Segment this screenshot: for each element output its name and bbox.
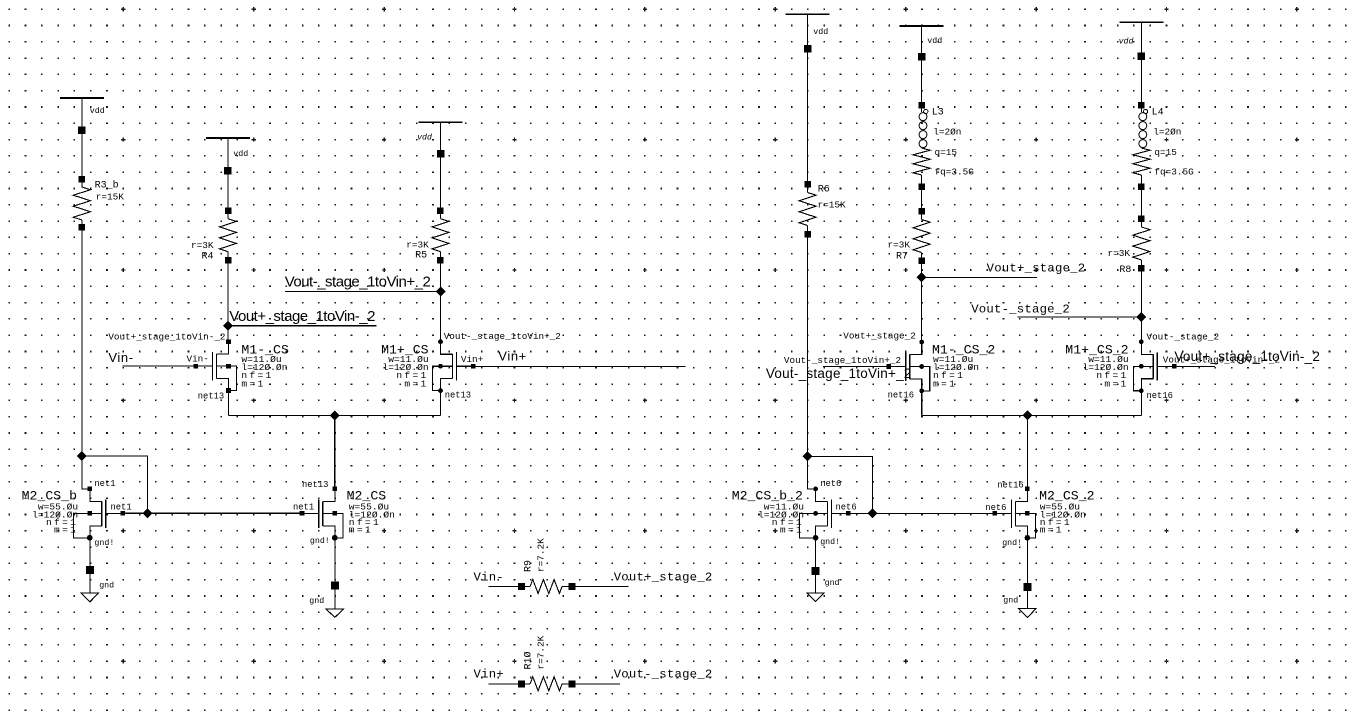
inductor L4 bottom pin <box>1138 183 1145 190</box>
svg-text:Vout-_stage_2: Vout-_stage_2 <box>1147 332 1220 343</box>
wire stub Vout+_stage_2 <box>922 276 1037 278</box>
wire vdd to R6 <box>807 14 809 192</box>
wire: bulk tie <box>217 366 237 390</box>
pin square on vdd stick <box>78 127 86 135</box>
svg-text:Vout-_stage_2: Vout-_stage_2 <box>971 302 1070 316</box>
wire L3 to R7 <box>921 175 923 220</box>
node Vout-_stage_2 <box>1136 312 1146 322</box>
drain pin <box>813 487 818 492</box>
bulk pin <box>1139 364 1144 369</box>
wire stub Vout-_stage_1toVin+_2 <box>285 291 441 293</box>
svg-text:gnd!: gnd! <box>310 536 330 546</box>
svg-text:Vin+: Vin+ <box>474 668 504 682</box>
svg-text:gnd: gnd <box>825 578 840 588</box>
svg-text:net6: net6 <box>820 479 841 489</box>
resistor R8 <box>1138 216 1145 223</box>
gate bar <box>1156 352 1158 380</box>
wire jog into M2_CS_b_2 drain <box>808 456 816 489</box>
gate pin <box>992 511 997 516</box>
common source rail stage2 <box>922 414 1142 416</box>
svg-text:m=1: m=1 <box>54 525 78 536</box>
wire: drain lead <box>816 489 828 502</box>
svg-text:Vout+_stage_2: Vout+_stage_2 <box>987 262 1086 276</box>
gate pin <box>471 364 476 369</box>
svg-text:Vin+: Vin+ <box>461 354 484 365</box>
svg-text:fq=3.5G: fq=3.5G <box>935 167 975 178</box>
wire: source lead <box>816 526 828 538</box>
source pin <box>1025 536 1030 541</box>
wire: source lead <box>90 526 102 538</box>
drain pin <box>333 487 338 492</box>
svg-text:Vout+_stage_2: Vout+_stage_2 <box>614 570 713 584</box>
svg-text:net6: net6 <box>836 503 857 513</box>
svg-text:Vout-_stage_1toVin+_2: Vout-_stage_1toVin+_2 <box>444 331 561 342</box>
wire R4 to M1-_CS drain <box>227 252 229 342</box>
wire R7 to M1-_CS_2 drain <box>921 253 923 342</box>
wire jog into M2_CS_b drain <box>82 456 90 489</box>
wire gate M1-_CS_2 <box>823 366 906 368</box>
wire rail to M2_CS_2 drain <box>1026 415 1028 489</box>
wire stub Vout+_stage_1toVin-_2 <box>228 325 377 327</box>
channel bar <box>1014 501 1016 525</box>
gate pin <box>846 511 851 516</box>
svg-text:gnd: gnd <box>99 580 114 590</box>
wire vdd to L3 <box>921 26 923 112</box>
svg-text:m=1: m=1 <box>404 378 428 389</box>
svg-text:net16: net16 <box>1147 391 1173 401</box>
svg-text:r=3K: r=3K <box>887 240 910 251</box>
wire M1+_CS_2 source to rail <box>1140 391 1142 416</box>
gate lead <box>1157 365 1174 367</box>
wire: drain lead <box>910 342 922 355</box>
channel bar <box>322 501 324 525</box>
gate lead <box>196 365 213 367</box>
source junction dot M2_CS_2 <box>1025 535 1031 541</box>
wire R10 to Vout-_stage_2 <box>562 683 620 685</box>
wire: source lead <box>1015 526 1027 538</box>
svg-text:vdd: vdd <box>1119 36 1134 46</box>
svg-text:m=1: m=1 <box>241 378 265 389</box>
svg-text:r=3K: r=3K <box>406 240 429 251</box>
vdd rail symbol (L3 branch) <box>900 25 944 27</box>
svg-text:m=1: m=1 <box>1040 525 1064 536</box>
svg-text:vdd: vdd <box>927 36 942 46</box>
bulk pin <box>1025 511 1030 516</box>
svg-text:Vout-_stage_1toVin+_2: Vout-_stage_1toVin+_2 <box>285 273 431 290</box>
drain pin <box>1139 339 1144 344</box>
wire: drain lead <box>217 342 229 355</box>
wire: bulk tie <box>799 513 827 537</box>
svg-text:net13: net13 <box>198 392 224 402</box>
svg-text:vdd: vdd <box>417 133 432 143</box>
svg-text:Vin+: Vin+ <box>498 349 527 364</box>
bulk pin <box>919 364 924 369</box>
gate bar <box>318 499 320 527</box>
svg-text:m=1: m=1 <box>349 525 373 536</box>
source pin <box>438 388 443 393</box>
node junction R6 bottom <box>803 451 813 461</box>
wire: drain lead <box>1015 489 1027 502</box>
vdd rail symbol (L4 branch) <box>1119 21 1163 23</box>
wire: drain lead <box>1141 342 1153 355</box>
wire: bulk tie <box>910 367 930 391</box>
wire M1+_CS gate to Vin+ <box>457 365 686 367</box>
svg-text:R3_b: R3_b <box>95 179 119 191</box>
gate lead <box>302 512 319 514</box>
wire: source lead <box>217 379 229 391</box>
svg-text:R8: R8 <box>1119 265 1131 276</box>
ground symbol (M2_CS) <box>326 609 344 618</box>
wire vdd to R3_b <box>81 98 83 187</box>
node Vout-_stage_1toVin+_2 <box>436 287 446 297</box>
svg-text:R6: R6 <box>818 185 830 196</box>
svg-text:net6: net6 <box>985 503 1006 513</box>
gate pin <box>120 511 125 516</box>
wire R6 to M2_CS_b_2 <box>807 226 809 457</box>
vdd rail symbol (R3_b branch) <box>60 97 104 99</box>
wire R8 to M1+_CS_2 drain <box>1140 260 1142 342</box>
resistor R10 (horizontal) <box>518 680 525 687</box>
wire: drain lead <box>441 342 453 355</box>
svg-text:l=2Øn: l=2Øn <box>933 127 961 138</box>
node net1 junction <box>143 508 153 518</box>
svg-text:r=15K: r=15K <box>818 200 847 211</box>
svg-text:r=15K: r=15K <box>96 192 125 203</box>
node net6 junction <box>867 508 877 518</box>
wire junction to gate net (stage2) <box>808 456 873 513</box>
svg-text:q=15: q=15 <box>935 147 958 158</box>
wire stub Vout-_stage_2 <box>1017 316 1141 318</box>
bulk pin <box>438 364 443 369</box>
wire vdd to L4 <box>1140 22 1142 112</box>
gate pin <box>300 511 305 516</box>
channel bar <box>909 355 911 379</box>
resistor R7 <box>918 208 925 215</box>
wire rail to M2_CS drain <box>334 415 336 489</box>
pin square on vdd stick R5 <box>437 150 445 158</box>
svg-text:m=1: m=1 <box>1104 378 1128 389</box>
svg-text:vdd: vdd <box>233 149 248 159</box>
source pin <box>919 389 924 394</box>
ground symbol (M2_CS_b) <box>81 593 99 602</box>
drain pin <box>438 339 443 344</box>
svg-text:R4: R4 <box>201 252 213 263</box>
svg-text:R9: R9 <box>523 560 534 572</box>
channel bar <box>101 501 103 525</box>
gate lead <box>457 365 474 367</box>
svg-text:r=3K: r=3K <box>191 240 214 251</box>
svg-text:Vin-: Vin- <box>187 353 209 364</box>
svg-text:Vout-_stage_1toVin+_2: Vout-_stage_1toVin+_2 <box>784 355 901 366</box>
svg-text:Vout+_stage_1toVin-_2: Vout+_stage_1toVin-_2 <box>1174 349 1320 364</box>
svg-text:net13: net13 <box>302 480 328 490</box>
svg-text:fq=3.5G: fq=3.5G <box>1154 167 1194 178</box>
gate lead <box>832 512 849 514</box>
resistor R5 <box>437 207 444 214</box>
pin square on vdd stick R4 <box>224 167 232 175</box>
resistor R4 <box>225 207 232 214</box>
wire net1 gate bus M2_CS_b to M2_CS <box>123 512 302 514</box>
svg-text:Vout+_stage_1toVin-_2: Vout+_stage_1toVin-_2 <box>108 332 225 343</box>
inductor L3 <box>918 102 925 109</box>
channel bar <box>452 354 454 378</box>
wire: source lead <box>441 379 453 391</box>
source junction dot M2_CS <box>332 535 338 541</box>
svg-text:net1: net1 <box>293 503 314 513</box>
svg-text:Vout+_stage_1toVin-_2: Vout+_stage_1toVin-_2 <box>229 308 375 325</box>
vdd rail symbol (R6 branch) <box>786 13 830 15</box>
wire R5 to M1+_CS drain <box>440 252 442 342</box>
source pin <box>88 536 93 541</box>
svg-text:gnd!: gnd! <box>1002 538 1022 548</box>
channel bar <box>827 501 829 525</box>
wire: bulk tie <box>1015 513 1035 537</box>
node junction at R3_b bottom <box>77 451 87 461</box>
ground symbol (M2_CS_b_2) <box>807 593 825 602</box>
wire R9 to Vout+_stage_2 <box>562 586 628 588</box>
svg-text:r=3K: r=3K <box>1107 248 1130 259</box>
wire: bulk tie <box>433 366 453 390</box>
svg-text:m=1: m=1 <box>780 525 804 536</box>
wire: bulk tie <box>323 513 343 537</box>
svg-text:gnd!: gnd! <box>820 537 840 547</box>
svg-text:net16: net16 <box>888 391 914 401</box>
svg-text:vdd: vdd <box>813 27 828 37</box>
svg-text:R1Ø: R1Ø <box>522 651 534 669</box>
source pin <box>1139 388 1144 393</box>
bulk pin <box>226 364 231 369</box>
vdd rail symbol (R4 branch) <box>206 137 250 139</box>
node net16 tail junction <box>1023 410 1033 420</box>
wire vdd to R4 <box>227 138 229 219</box>
resistor R9 (horizontal) <box>518 583 525 590</box>
gate pin <box>193 364 198 369</box>
gnd pin square <box>86 566 94 574</box>
channel bar <box>216 354 218 378</box>
wire L4 to R8 <box>1140 175 1142 227</box>
resistor R6 <box>804 181 811 188</box>
node net13 tail junction <box>330 410 340 420</box>
wire R3_b to M2_CS_b drain <box>81 220 83 456</box>
channel bar <box>1152 354 1154 378</box>
svg-text:net1: net1 <box>111 502 132 512</box>
wire junction to gate-net of M2_CS_b <box>82 456 148 513</box>
pin square on vdd stick L4 <box>1138 53 1146 61</box>
svg-text:R7: R7 <box>896 252 908 263</box>
bulk pin <box>813 511 818 516</box>
wire: drain lead <box>90 489 102 502</box>
svg-text:r=7.2K: r=7.2K <box>536 635 547 669</box>
svg-text:m=1: m=1 <box>933 378 957 389</box>
node Vout+_stage_2 <box>917 272 927 282</box>
wire M1-_CS_2 source to rail <box>921 391 923 416</box>
drain pin <box>1025 487 1030 492</box>
gate pin <box>1172 364 1177 369</box>
source pin <box>226 388 231 393</box>
bulk pin <box>88 511 93 516</box>
wire vdd to R5 <box>440 122 442 219</box>
node Vout+_stage_1toVin-_2 <box>223 321 233 331</box>
svg-text:R5: R5 <box>415 251 427 262</box>
gate bar <box>456 352 458 380</box>
wire: source lead <box>910 379 922 391</box>
svg-text:net1: net1 <box>94 479 115 489</box>
gate bar <box>212 352 214 380</box>
gate bar <box>105 499 107 527</box>
gate lead <box>995 512 1012 514</box>
gate bar <box>905 353 907 381</box>
wire M2_CS_b_2 source to gnd <box>815 538 817 593</box>
gnd pin square M2_CS <box>331 581 339 589</box>
inductor L4 <box>1138 102 1145 109</box>
svg-text:L3: L3 <box>932 108 944 119</box>
svg-text:q=15: q=15 <box>1154 147 1177 158</box>
svg-text:Vin-: Vin- <box>474 570 504 584</box>
svg-text:L4: L4 <box>1152 108 1164 119</box>
wire M1- source to common rail <box>228 391 230 416</box>
wire net6 gate bus <box>849 512 997 514</box>
wire M2_CS_b source to gnd <box>89 538 91 593</box>
svg-text:gnd: gnd <box>1003 596 1018 606</box>
gnd pin square M2_CS_b_2 <box>812 567 820 575</box>
pin square on vdd stick R6 <box>804 45 812 53</box>
wire Vin+ to R10 <box>488 683 530 685</box>
wire M2_CS source to gnd <box>334 538 336 609</box>
inductor L3 bottom pin <box>918 183 925 190</box>
ground symbol (M2_CS_2) <box>1019 608 1037 617</box>
vdd rail symbol (R5 branch) <box>419 121 463 123</box>
svg-text:net13: net13 <box>445 390 471 400</box>
source junction dot M2_CS_b_2 <box>813 535 819 541</box>
svg-text:vdd: vdd <box>90 106 105 116</box>
wire: bulk tie <box>74 513 102 537</box>
svg-text:Vin-: Vin- <box>108 350 133 365</box>
source junction dot M2_CS_b <box>87 535 93 541</box>
gate pin <box>887 364 892 369</box>
gate lead <box>106 512 123 514</box>
svg-text:Vout+_stage_2: Vout+_stage_2 <box>843 331 916 342</box>
wire Vin- to R9 <box>488 586 530 588</box>
wire gate M1+_CS_2 <box>1157 365 1215 367</box>
gnd pin square M2_CS_2 <box>1023 583 1031 591</box>
svg-text:r=7.2K: r=7.2K <box>536 538 547 572</box>
wire M2_CS_2 source to gnd <box>1026 538 1028 609</box>
gate bar <box>1010 499 1012 527</box>
bulk pin <box>333 511 338 516</box>
drain pin <box>919 340 924 345</box>
wire M1+ source to rail <box>440 391 442 415</box>
gate bar <box>831 499 833 527</box>
pin square on vdd stick L3 <box>918 53 926 61</box>
wire: source lead <box>1141 379 1153 391</box>
source pin <box>333 536 338 541</box>
svg-text:gnd!: gnd! <box>94 538 114 548</box>
svg-text:l=2Øn: l=2Øn <box>1153 127 1181 138</box>
drain pin <box>226 339 231 344</box>
svg-text:gnd: gnd <box>309 596 324 606</box>
wire: bulk tie <box>1133 366 1153 390</box>
drain pin <box>88 487 93 492</box>
svg-text:net16: net16 <box>997 480 1023 490</box>
gate lead <box>889 366 906 368</box>
wire: source lead <box>323 526 335 538</box>
source pin <box>813 535 818 540</box>
wire: drain lead <box>323 489 335 502</box>
svg-text:Vout-_stage_2: Vout-_stage_2 <box>614 668 713 682</box>
wire Vin- to M1-_CS gate <box>122 365 196 367</box>
common source rail stage1 <box>229 414 441 416</box>
resistor R3_b <box>79 176 86 183</box>
